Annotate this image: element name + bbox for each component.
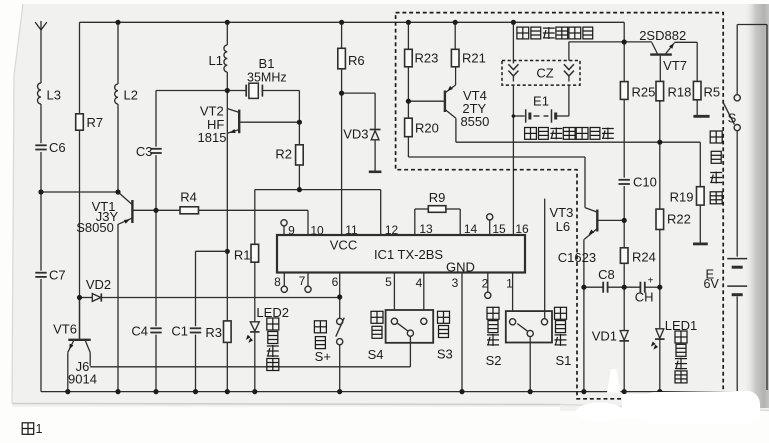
svg-text:S2: S2 <box>486 353 502 368</box>
svg-text:1: 1 <box>36 422 43 436</box>
svg-text:R5: R5 <box>704 85 721 100</box>
svg-text:L6: L6 <box>556 219 570 234</box>
svg-text:R21: R21 <box>462 51 486 66</box>
svg-text:15: 15 <box>492 222 506 236</box>
svg-text:R18: R18 <box>668 85 692 100</box>
svg-text:1815: 1815 <box>198 130 227 145</box>
svg-text:R24: R24 <box>632 250 656 265</box>
svg-text:VCC: VCC <box>330 238 357 253</box>
svg-text:R25: R25 <box>632 85 656 100</box>
svg-text:35MHz: 35MHz <box>247 71 287 85</box>
svg-text:11: 11 <box>345 223 358 237</box>
svg-text:3: 3 <box>452 276 459 290</box>
svg-text:4: 4 <box>416 276 423 290</box>
svg-text:GND: GND <box>446 259 475 274</box>
svg-text:10: 10 <box>310 224 324 238</box>
svg-text:VT6: VT6 <box>53 322 77 337</box>
svg-text:R19: R19 <box>670 190 694 205</box>
svg-text:16: 16 <box>515 222 529 236</box>
svg-text:R6: R6 <box>348 53 365 68</box>
svg-text:R22: R22 <box>667 212 691 227</box>
svg-text:C3: C3 <box>136 144 153 159</box>
svg-text:+: + <box>648 276 654 287</box>
svg-text:CZ: CZ <box>536 66 553 81</box>
svg-text:S4: S4 <box>368 347 384 362</box>
svg-text:9: 9 <box>288 224 295 238</box>
svg-text:R20: R20 <box>415 121 439 136</box>
svg-text:S: S <box>728 111 737 126</box>
svg-text:14: 14 <box>464 222 478 236</box>
svg-text:9014: 9014 <box>68 372 97 387</box>
svg-text:R1: R1 <box>234 248 251 263</box>
svg-text:CH: CH <box>635 290 654 305</box>
svg-text:C4: C4 <box>131 324 148 339</box>
svg-text:S3: S3 <box>437 347 453 362</box>
svg-text:R7: R7 <box>87 115 104 130</box>
svg-text:5: 5 <box>385 275 392 289</box>
svg-text:C8: C8 <box>598 267 615 282</box>
svg-text:7: 7 <box>299 274 306 288</box>
svg-text:12: 12 <box>385 223 399 237</box>
svg-text:E1: E1 <box>533 94 549 109</box>
svg-text:S8050: S8050 <box>76 220 114 235</box>
svg-text:C10: C10 <box>633 175 657 190</box>
svg-text:VT7: VT7 <box>663 58 687 73</box>
svg-text:6V: 6V <box>704 277 720 291</box>
svg-text:1: 1 <box>506 277 513 291</box>
svg-text:R2: R2 <box>275 147 292 162</box>
svg-text:R23: R23 <box>415 51 439 66</box>
svg-text:R3: R3 <box>205 325 222 340</box>
svg-text:R9: R9 <box>429 190 446 205</box>
svg-text:VD1: VD1 <box>592 329 617 344</box>
svg-text:L1: L1 <box>209 53 223 68</box>
svg-text:R4: R4 <box>180 190 197 205</box>
svg-text:8: 8 <box>274 275 281 289</box>
svg-text:S1: S1 <box>555 353 571 368</box>
svg-text:L2: L2 <box>124 88 138 103</box>
svg-text:VD2: VD2 <box>86 277 111 292</box>
svg-text:2: 2 <box>482 277 489 291</box>
svg-text:C1623: C1623 <box>558 250 596 265</box>
svg-text:C6: C6 <box>49 140 66 155</box>
svg-text:2SD882: 2SD882 <box>639 28 686 43</box>
svg-text:VD3: VD3 <box>343 127 368 142</box>
svg-text:C7: C7 <box>49 268 66 283</box>
svg-text:IC1 TX-2BS: IC1 TX-2BS <box>374 247 443 262</box>
svg-text:6: 6 <box>332 275 339 289</box>
svg-text:8550: 8550 <box>460 114 489 129</box>
svg-text:B1: B1 <box>259 56 275 71</box>
svg-text:VT3: VT3 <box>549 205 573 220</box>
svg-text:S+: S+ <box>315 349 331 364</box>
svg-text:L3: L3 <box>47 88 61 103</box>
svg-text:C1: C1 <box>171 324 188 339</box>
svg-text:13: 13 <box>419 222 433 236</box>
